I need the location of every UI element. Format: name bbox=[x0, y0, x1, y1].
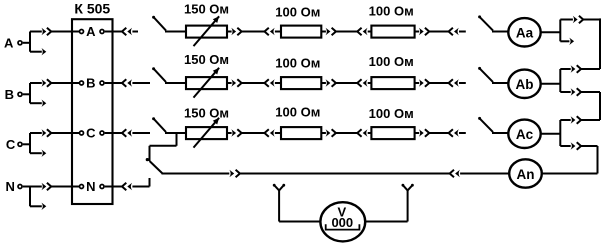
resistor 100 Ом (first), phase C bbox=[281, 127, 321, 139]
switch SC (open knife switch) bbox=[152, 117, 186, 133]
plug connector after box, phase A bbox=[122, 28, 138, 35]
node bar at input C bbox=[29, 133, 31, 153]
neutral stub wire up to switch bbox=[149, 178, 151, 187]
wire with plug pair between the two 100 Ом resistors, phase C bbox=[321, 129, 371, 136]
input terminal N label bbox=[6, 179, 15, 194]
wire input A spare branch bbox=[30, 48, 46, 55]
box terminal N bbox=[80, 179, 123, 194]
resistor 100 Ом (second), phase A bbox=[371, 26, 414, 38]
value label first 100 Ом, phase A bbox=[275, 5, 320, 20]
input terminal C socket bbox=[18, 142, 30, 146]
resistor 100 Ом (second), phase B bbox=[371, 77, 414, 89]
bus wire from Ac down to An line bbox=[542, 146, 598, 174]
wire from ammeter Ab to output node bbox=[541, 83, 561, 85]
variable resistor 150 Ом, phase B bbox=[186, 68, 227, 98]
voltmeter right probe fork bbox=[365, 184, 414, 222]
svg-text:100 Ом: 100 Ом bbox=[275, 5, 320, 20]
svg-text:100 Ом: 100 Ом bbox=[275, 55, 320, 70]
switch before ammeter Aa bbox=[478, 15, 508, 31]
neutral line wire with plug arrows to ammeter An bbox=[162, 170, 510, 177]
wire phase B lower branch with plug arrows bbox=[560, 88, 600, 95]
tap wire from phase C to neutral switch bbox=[150, 133, 177, 161]
wire input C top branch with plug arrows bbox=[30, 129, 79, 136]
value label second 100 Ом, phase B bbox=[369, 54, 414, 69]
value label second 100 Ом, phase C bbox=[369, 106, 414, 121]
node bar at input A bbox=[29, 32, 31, 52]
wire with plug pair between rheostat and first 100 Ом, phase A bbox=[227, 28, 281, 35]
svg-text:B: B bbox=[86, 76, 95, 91]
svg-text:000: 000 bbox=[331, 215, 353, 230]
input terminal B socket bbox=[18, 92, 30, 96]
svg-text:A: A bbox=[86, 24, 96, 39]
input terminal B label bbox=[5, 87, 14, 102]
neutral switch blade bbox=[150, 161, 163, 174]
svg-text:Ab: Ab bbox=[516, 77, 534, 92]
svg-text:Aa: Aa bbox=[516, 25, 534, 40]
svg-text:100 Ом: 100 Ом bbox=[369, 54, 414, 69]
resistor 100 Ом (first), phase A bbox=[281, 26, 321, 38]
distribution box K 505 outline bbox=[72, 19, 113, 204]
box terminal B bbox=[80, 76, 123, 91]
wire phase C upper branch with plug arrows bbox=[560, 116, 600, 123]
ammeter Ab bbox=[508, 70, 540, 98]
wire input A top branch with plug arrows bbox=[30, 28, 79, 35]
wire phase A upper branch with plug arrows to bus bbox=[560, 16, 600, 23]
wire phase B upper branch with plug arrows bbox=[560, 65, 600, 72]
output node bar, phase C bbox=[559, 120, 561, 146]
input terminal A socket bbox=[18, 41, 30, 45]
input terminal A label bbox=[4, 35, 14, 50]
svg-text:N: N bbox=[6, 179, 15, 194]
switch SB (open knife switch) bbox=[152, 67, 186, 83]
variable resistor 150 Ом, phase A bbox=[186, 16, 227, 46]
ammeter An bbox=[509, 159, 542, 187]
wire with plug pair before ammeter switch, phase C bbox=[415, 129, 466, 136]
box terminal C bbox=[80, 126, 123, 141]
svg-text:К 505: К 505 bbox=[74, 0, 110, 16]
plug connector after box, phase C bbox=[122, 129, 150, 136]
wire input N top branch with plug arrows bbox=[30, 183, 79, 190]
wire with plug pair between rheostat and first 100 Ом, phase C bbox=[227, 129, 281, 136]
voltmeter V bbox=[320, 202, 365, 241]
switch SA (open knife switch) bbox=[152, 16, 186, 32]
label K 505 bbox=[74, 0, 110, 16]
wire input N spare branch bbox=[30, 203, 46, 210]
box terminal A bbox=[80, 24, 123, 39]
svg-text:100 Ом: 100 Ом bbox=[369, 3, 414, 18]
svg-text:100 Ом: 100 Ом bbox=[369, 106, 414, 121]
value label first 100 Ом, phase B bbox=[275, 55, 320, 70]
value label 150 Ом, phase A bbox=[184, 1, 229, 16]
wire input B spare branch bbox=[30, 100, 46, 107]
ammeter Ac bbox=[508, 120, 540, 148]
svg-text:C: C bbox=[6, 137, 16, 152]
wire phase C lower branch with plug arrows bbox=[560, 142, 597, 149]
value label second 100 Ом, phase A bbox=[369, 3, 414, 18]
variable resistor 150 Ом, phase C bbox=[186, 118, 227, 148]
input terminal N socket bbox=[18, 185, 30, 189]
svg-text:150 Ом: 150 Ом bbox=[184, 1, 229, 16]
svg-text:100 Ом: 100 Ом bbox=[275, 105, 320, 120]
node bar at input B bbox=[29, 83, 31, 103]
plug connector after box, neutral N bbox=[122, 183, 150, 190]
value label 150 Ом, phase C bbox=[184, 106, 229, 121]
plug connector after box, phase B bbox=[122, 79, 150, 86]
switch before ammeter Ac bbox=[478, 117, 508, 133]
svg-text:N: N bbox=[86, 179, 95, 194]
resistor 100 Ом (first), phase B bbox=[281, 77, 321, 89]
svg-text:An: An bbox=[517, 167, 535, 182]
node bar at input N bbox=[29, 187, 31, 207]
wire with plug pair before ammeter switch, phase A bbox=[415, 28, 466, 35]
wire input C spare branch bbox=[30, 150, 46, 157]
wire phase A spare branch bbox=[560, 38, 574, 45]
svg-text:Ac: Ac bbox=[516, 127, 534, 142]
switch before ammeter Ab bbox=[478, 67, 508, 83]
ammeter Aa bbox=[508, 18, 540, 46]
output node bar, phase A bbox=[559, 20, 561, 42]
svg-text:B: B bbox=[5, 87, 14, 102]
wire with plug pair between rheostat and first 100 Ом, phase B bbox=[227, 79, 281, 86]
wire from ammeter Ac to output node bbox=[541, 133, 561, 135]
wire with plug pair between the two 100 Ом resistors, phase B bbox=[321, 79, 371, 86]
svg-text:150 Ом: 150 Ом bbox=[184, 106, 229, 121]
neutral switch pivot bbox=[146, 158, 149, 161]
input terminal C label bbox=[6, 137, 16, 152]
voltmeter left probe fork bbox=[273, 184, 321, 222]
value label first 100 Ом, phase C bbox=[275, 105, 320, 120]
value label 150 Ом, phase B bbox=[184, 52, 229, 67]
svg-text:150 Ом: 150 Ом bbox=[184, 52, 229, 67]
wire from ammeter Aa to output node bbox=[541, 31, 561, 33]
wire input B top branch with plug arrows bbox=[30, 79, 79, 86]
bus wire from Ab to Ac bbox=[599, 92, 601, 120]
resistor 100 Ом (second), phase C bbox=[371, 127, 414, 139]
svg-text:A: A bbox=[4, 35, 14, 50]
wire with plug pair before ammeter switch, phase B bbox=[415, 79, 466, 86]
wire with plug pair between the two 100 Ом resistors, phase A bbox=[321, 28, 371, 35]
output node bar, phase B bbox=[559, 69, 561, 92]
svg-text:C: C bbox=[86, 126, 96, 141]
bus wire from Aa to Ab bbox=[599, 18, 601, 69]
